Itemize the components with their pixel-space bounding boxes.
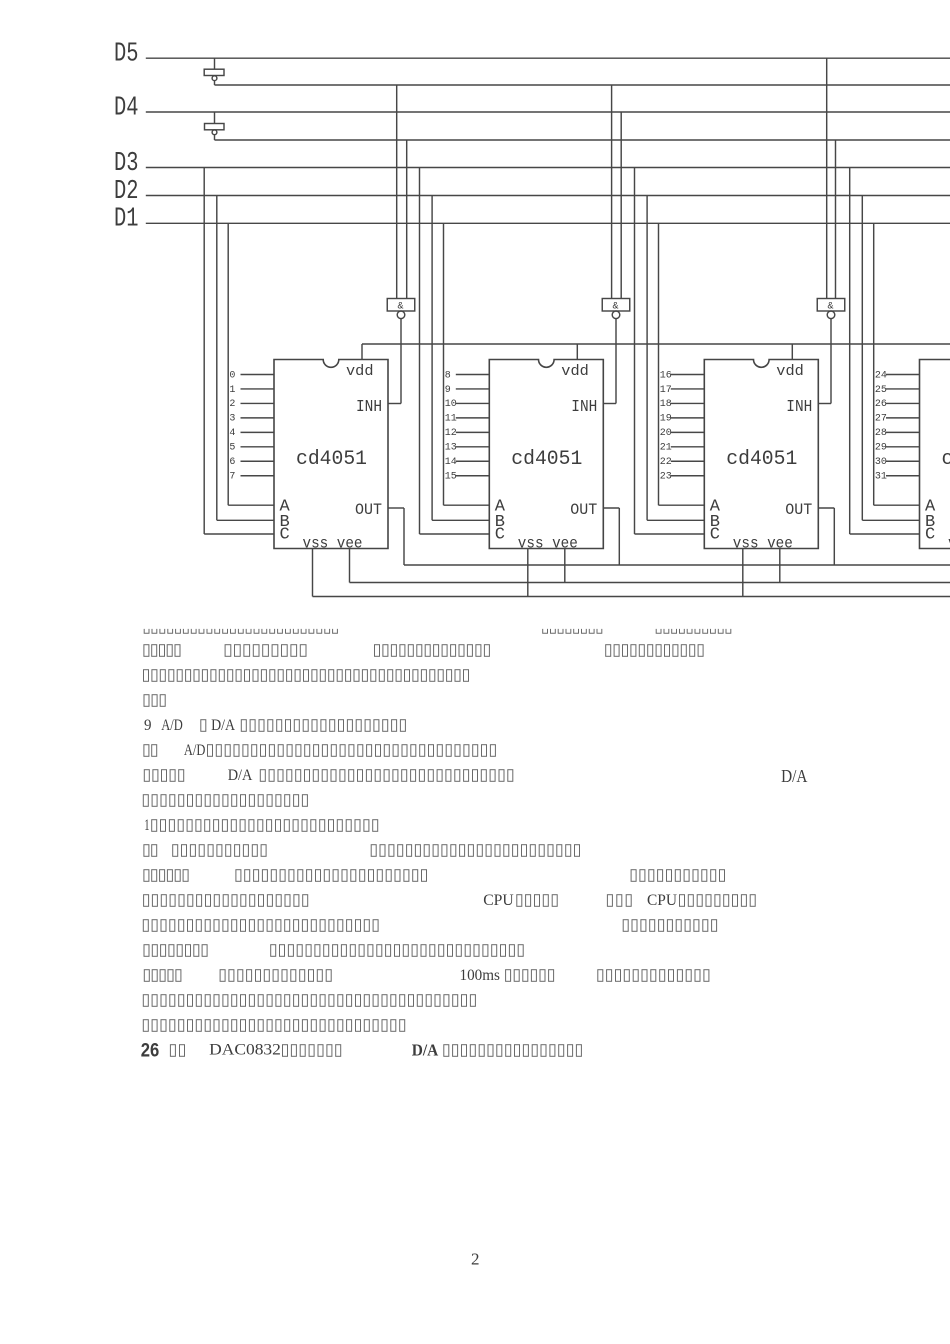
svg-text:12: 12 [445, 428, 457, 439]
NAND gate U5 (&) [387, 299, 415, 319]
wire D1 to U2 pin A [444, 223, 490, 505]
wire D3 to U1 pin C [204, 168, 274, 535]
wire vss rail [313, 596, 950, 598]
wire U3 OUT to output bus [818, 508, 834, 565]
U3 channel pin 20 [660, 428, 705, 439]
svg-text:vdd: vdd [346, 363, 374, 380]
U4 channel pin 26 [875, 399, 920, 410]
svg-text:INH: INH [786, 398, 812, 417]
svg-text:13: 13 [445, 443, 457, 454]
svg-text:CPU: CPU [647, 892, 677, 909]
svg-text:D/A: D/A [228, 767, 253, 784]
wire U3 vss stub [742, 549, 744, 597]
wire U5 output to U1 INH [388, 319, 401, 404]
U2 channel pin 8 [445, 370, 490, 381]
svg-text:C: C [925, 526, 935, 545]
svg-text:31: 31 [875, 472, 887, 483]
svg-text:15: 15 [445, 472, 457, 483]
svg-text:9: 9 [144, 717, 152, 734]
svg-text:OUT: OUT [355, 501, 382, 519]
wire D2 to U4 pin B [862, 196, 919, 521]
svg-text:D4: D4 [114, 93, 139, 123]
svg-text:7: 7 [229, 472, 235, 483]
svg-text:D5: D5 [114, 40, 139, 70]
wire D4 horizontal bus [146, 111, 950, 113]
svg-text:17: 17 [660, 385, 672, 396]
U4 channel pin 29 [875, 443, 920, 454]
wire G1 output (NOT D5) rail [215, 81, 950, 85]
svg-text:C: C [710, 526, 720, 545]
svg-text:D3: D3 [114, 149, 139, 179]
U1 channel pin 4 [229, 428, 274, 439]
NAND gate U5 input wires [397, 85, 407, 299]
NAND gate U6 input wires [612, 85, 622, 299]
U3 channel pin 17 [660, 385, 705, 396]
wire U6 output to U2 INH [603, 319, 616, 404]
wire D2 to U2 pin B [432, 196, 489, 521]
svg-text:22: 22 [660, 457, 672, 468]
wire U7 output to U3 INH [818, 319, 831, 404]
svg-text:C: C [280, 526, 290, 545]
svg-text:cd4051: cd4051 [726, 448, 797, 471]
text block (scanned CJK shown as tofu boxes) [141, 629, 808, 1062]
svg-text:0: 0 [229, 370, 235, 381]
wire D1 horizontal bus [146, 222, 950, 224]
wire D3 to U4 pin C [850, 168, 920, 535]
inverter G1 (on D5) [204, 69, 224, 80]
NAND gate U7 (&) [817, 299, 845, 319]
U2 channel pin 12 [445, 428, 490, 439]
svg-text:cd4051: cd4051 [511, 448, 582, 471]
U2 channel pin 11 [445, 414, 490, 425]
svg-text:vss vee: vss vee [303, 535, 363, 553]
svg-text:cd4051: cd4051 [296, 448, 367, 471]
svg-text:10: 10 [445, 399, 457, 410]
IC U3 cd4051 body [704, 360, 818, 549]
svg-text:OUT: OUT [785, 501, 812, 519]
wire U1 OUT to output bus [388, 508, 404, 565]
U1 channel pin 0 [229, 370, 274, 381]
svg-text:D2: D2 [114, 177, 139, 207]
NAND gate U7 input wires [827, 58, 836, 298]
wire D3 to U2 pin C [420, 168, 490, 535]
svg-text:24: 24 [875, 370, 887, 381]
svg-text:D/A: D/A [211, 717, 235, 734]
wire U2 vss stub [527, 549, 529, 597]
wire vee rail [350, 582, 950, 584]
U1 channel pin 3 [229, 414, 274, 425]
IC U2 cd4051 body [489, 360, 603, 549]
svg-text:26: 26 [141, 1041, 160, 1062]
page number [471, 1250, 480, 1269]
svg-text:INH: INH [571, 398, 597, 417]
U4 channel pin 30 [875, 457, 920, 468]
svg-text:25: 25 [875, 385, 887, 396]
IC U4 cd4051 body [920, 360, 950, 549]
wire D2 horizontal bus [146, 195, 950, 197]
U4 channel pin 24 [875, 370, 920, 381]
svg-text:18: 18 [660, 399, 672, 410]
wire U1 vss stub [312, 549, 314, 597]
svg-text:CPU: CPU [483, 892, 514, 909]
U4 channel pin 31 [875, 472, 920, 483]
wire U3 vee stub [779, 549, 781, 583]
svg-text:8: 8 [445, 370, 451, 381]
svg-text:vdd: vdd [776, 363, 804, 380]
svg-text:29: 29 [875, 443, 887, 454]
svg-text:5: 5 [229, 443, 235, 454]
svg-text:A/D: A/D [184, 742, 206, 759]
wire U1 vee stub [349, 549, 351, 583]
inverter G2 input wire from D4 [214, 112, 216, 124]
IC U1 labels [280, 363, 383, 553]
svg-text:27: 27 [875, 414, 887, 425]
IC U2 labels [495, 363, 598, 553]
svg-text:23: 23 [660, 472, 672, 483]
svg-text:vdd: vdd [561, 363, 589, 380]
svg-text:OUT: OUT [570, 501, 597, 519]
svg-text:DAC0832: DAC0832 [209, 1042, 281, 1059]
U3 channel pin 21 [660, 443, 705, 454]
svg-text:INH: INH [356, 398, 382, 417]
node D2 label [114, 177, 139, 207]
wire OUT bus rail [404, 564, 950, 566]
svg-text:20: 20 [660, 428, 672, 439]
U4 channel pin 25 [875, 385, 920, 396]
U1 channel pin 7 [229, 472, 274, 483]
svg-text:D1: D1 [114, 205, 139, 235]
svg-text:D/A: D/A [412, 1041, 439, 1060]
svg-text:cd4051: cd4051 [942, 448, 950, 471]
svg-text:6: 6 [229, 457, 235, 468]
U4 channel pin 28 [875, 428, 920, 439]
node D3 label [114, 149, 139, 179]
wire D1 to U4 pin A [874, 223, 920, 505]
node D5 label [114, 40, 139, 70]
U1 channel pin 5 [229, 443, 274, 454]
svg-text:vss vee: vss vee [733, 535, 793, 553]
U2 channel pin 13 [445, 443, 490, 454]
svg-text:2: 2 [229, 399, 235, 410]
U4 channel pin 27 [875, 414, 920, 425]
U2 channel pin 10 [445, 399, 490, 410]
svg-text:3: 3 [229, 414, 235, 425]
IC U3 labels [710, 363, 813, 553]
wire D3 to U3 pin C [635, 168, 705, 535]
wire D3 horizontal bus [146, 167, 950, 169]
svg-text:4: 4 [229, 428, 235, 439]
svg-text:16: 16 [660, 370, 672, 381]
svg-text:1: 1 [229, 385, 235, 396]
IC U1 cd4051 body [274, 360, 388, 549]
NAND gate U6 (&) [602, 299, 630, 319]
wire G2 output (NOT D4) rail [215, 135, 950, 140]
node D1 label [114, 205, 139, 235]
svg-text:100ms: 100ms [460, 967, 500, 984]
wire D5 horizontal bus [146, 57, 950, 59]
U1 channel pin 1 [229, 385, 274, 396]
svg-text:14: 14 [445, 457, 457, 468]
U3 channel pin 19 [660, 414, 705, 425]
wire U2 OUT to output bus [603, 508, 619, 565]
U2 channel pin 14 [445, 457, 490, 468]
svg-text:C: C [495, 526, 505, 545]
node D4 label [114, 93, 139, 123]
U3 channel pin 23 [660, 472, 705, 483]
inverter G1 input wire from D5 [214, 58, 216, 69]
wire D1 to U3 pin A [659, 223, 705, 505]
U1 channel pin 2 [229, 399, 274, 410]
wire D2 to U1 pin B [217, 196, 274, 521]
svg-text:11: 11 [445, 414, 457, 425]
wire D2 to U3 pin B [647, 196, 704, 521]
U3 channel pin 16 [660, 370, 705, 381]
U1 channel pin 6 [229, 457, 274, 468]
svg-text:A/D: A/D [161, 717, 183, 734]
svg-text:28: 28 [875, 428, 887, 439]
U2 channel pin 9 [445, 385, 490, 396]
svg-text:D/A: D/A [781, 766, 807, 786]
svg-text:19: 19 [660, 414, 672, 425]
inverter G2 (on D4) [205, 124, 225, 135]
svg-text:1: 1 [144, 817, 149, 834]
svg-text:vss vee: vss vee [518, 535, 578, 553]
svg-text:2: 2 [471, 1250, 480, 1269]
U3 channel pin 22 [660, 457, 705, 468]
wire D1 to U1 pin A [228, 223, 274, 505]
U2 channel pin 15 [445, 472, 490, 483]
svg-text:26: 26 [875, 399, 887, 410]
svg-text:9: 9 [445, 385, 451, 396]
svg-text:30: 30 [875, 457, 887, 468]
svg-text:21: 21 [660, 443, 672, 454]
IC U4 labels [925, 363, 950, 553]
U3 channel pin 18 [660, 399, 705, 410]
wire U2 vee stub [564, 549, 566, 583]
wire vdd rail [362, 344, 950, 360]
